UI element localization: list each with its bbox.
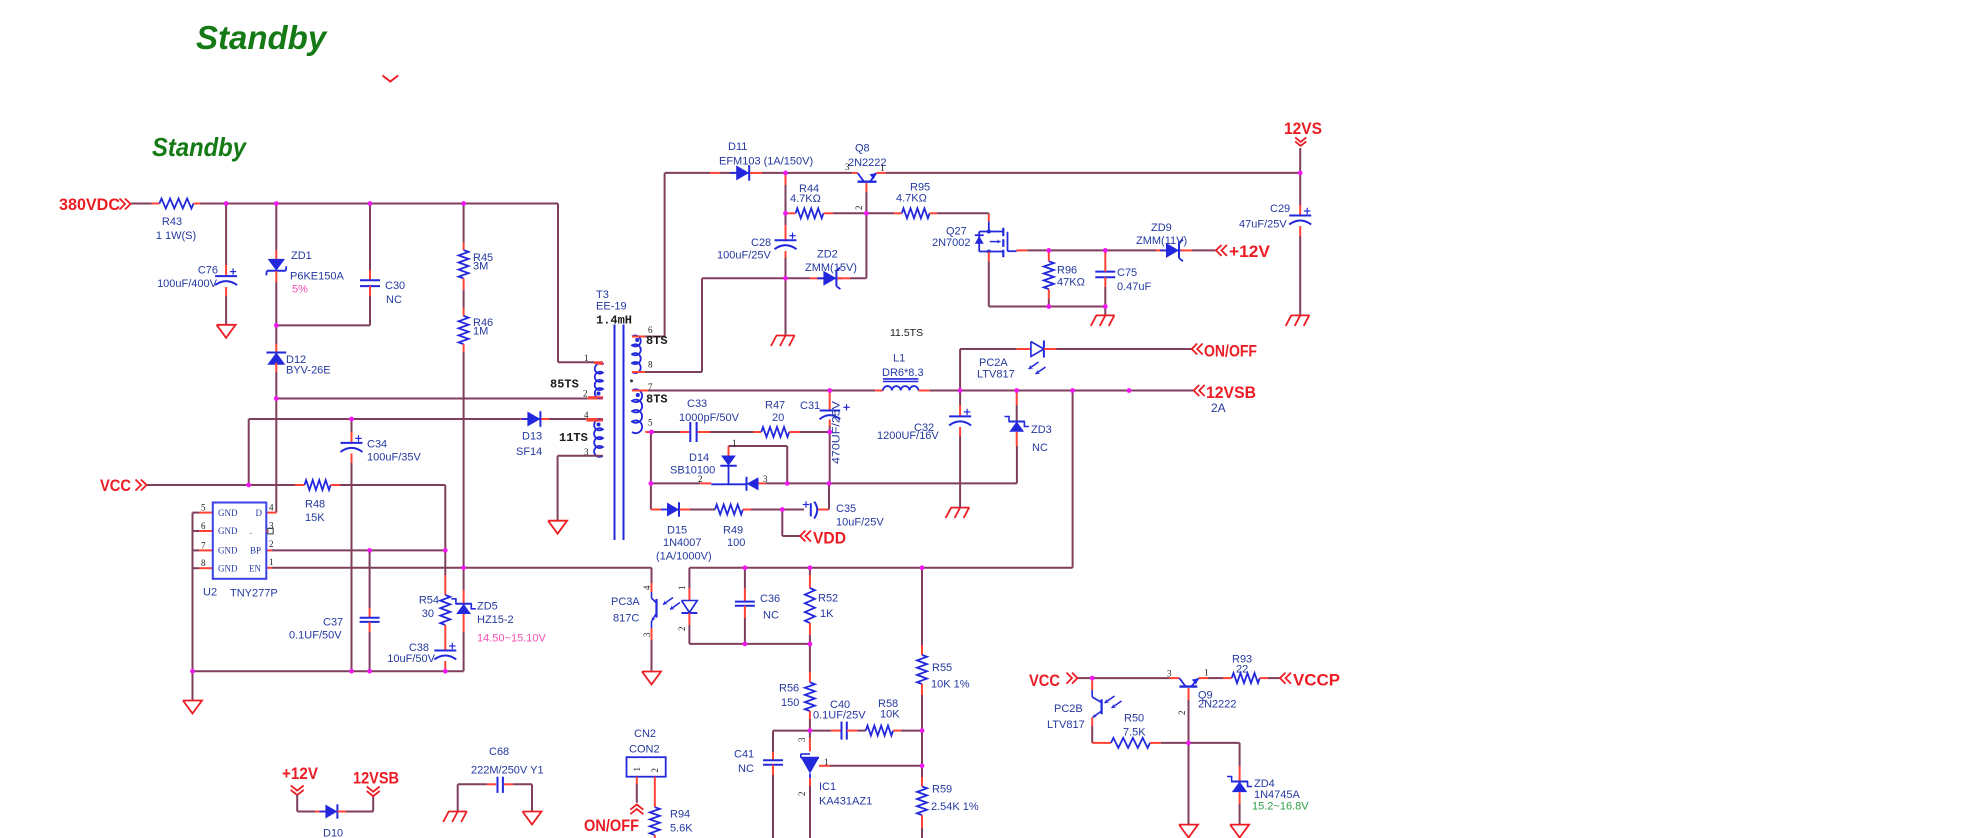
svg-text:1: 1 bbox=[269, 557, 274, 567]
svg-text:12VS: 12VS bbox=[1284, 119, 1322, 138]
svg-text:P6KE150A: P6KE150A bbox=[290, 271, 344, 283]
svg-text:7: 7 bbox=[201, 540, 206, 550]
svg-text:1: 1 bbox=[824, 757, 829, 767]
svg-text:PC3A: PC3A bbox=[611, 596, 640, 608]
svg-text:.: . bbox=[250, 526, 252, 536]
svg-text:12VSB: 12VSB bbox=[353, 769, 399, 788]
svg-text:BYV-26E: BYV-26E bbox=[286, 365, 331, 377]
svg-text:ZD2: ZD2 bbox=[817, 249, 838, 261]
svg-text:817C: 817C bbox=[613, 613, 639, 625]
svg-text:U2: U2 bbox=[203, 587, 217, 599]
svg-text:470UF/25V: 470UF/25V bbox=[831, 400, 843, 464]
svg-text:1200UF/16V: 1200UF/16V bbox=[877, 430, 939, 442]
svg-text:4: 4 bbox=[269, 503, 274, 513]
svg-text:3: 3 bbox=[797, 737, 807, 742]
svg-text:2: 2 bbox=[269, 539, 274, 549]
svg-text:1: 1 bbox=[1204, 668, 1209, 678]
svg-text:1: 1 bbox=[732, 438, 737, 448]
svg-text:10uF/25V: 10uF/25V bbox=[836, 517, 884, 529]
svg-text:2.54K 1%: 2.54K 1% bbox=[931, 801, 979, 813]
svg-text:100uF/400V: 100uF/400V bbox=[157, 278, 218, 290]
svg-text:LTV817: LTV817 bbox=[977, 369, 1015, 381]
svg-text:20: 20 bbox=[772, 412, 784, 424]
svg-text:C33: C33 bbox=[687, 398, 707, 410]
svg-text:47uF/25V: 47uF/25V bbox=[1239, 219, 1287, 231]
svg-text:C41: C41 bbox=[734, 749, 754, 761]
svg-text:4: 4 bbox=[642, 585, 652, 590]
svg-text:+12V: +12V bbox=[1229, 242, 1271, 261]
svg-text:2: 2 bbox=[583, 389, 588, 399]
svg-text:CN2: CN2 bbox=[634, 728, 656, 740]
svg-text:R49: R49 bbox=[723, 525, 743, 537]
svg-text:L1: L1 bbox=[893, 353, 905, 365]
svg-text:1K: 1K bbox=[820, 608, 834, 620]
svg-text:2A: 2A bbox=[1211, 401, 1226, 415]
svg-text:3M: 3M bbox=[473, 261, 488, 273]
svg-text:10uF/50V: 10uF/50V bbox=[387, 653, 435, 665]
svg-text:2: 2 bbox=[1177, 711, 1187, 716]
svg-text:6: 6 bbox=[648, 325, 653, 335]
svg-text:Q8: Q8 bbox=[855, 143, 870, 155]
svg-text:C36: C36 bbox=[760, 593, 780, 605]
svg-text:14.50~15.10V: 14.50~15.10V bbox=[477, 633, 546, 645]
svg-text:R47: R47 bbox=[765, 400, 785, 412]
svg-text:85TS: 85TS bbox=[550, 378, 579, 392]
svg-text:2: 2 bbox=[797, 792, 807, 797]
svg-text:380VDC: 380VDC bbox=[59, 195, 120, 214]
svg-text:3: 3 bbox=[1167, 669, 1172, 679]
svg-text:12VSB: 12VSB bbox=[1206, 383, 1256, 402]
svg-text:NC: NC bbox=[763, 610, 779, 622]
svg-text:BP: BP bbox=[250, 546, 261, 556]
svg-text:47KΩ: 47KΩ bbox=[1057, 277, 1085, 289]
svg-text:3: 3 bbox=[763, 474, 768, 484]
svg-text:C34: C34 bbox=[367, 439, 387, 451]
svg-text:15K: 15K bbox=[305, 512, 325, 524]
svg-text:1 1W(S): 1 1W(S) bbox=[156, 230, 196, 242]
svg-text:Q27: Q27 bbox=[946, 226, 967, 238]
svg-text:7: 7 bbox=[648, 382, 653, 392]
svg-text:(1A/1000V): (1A/1000V) bbox=[656, 551, 712, 563]
svg-text:6: 6 bbox=[201, 521, 206, 531]
svg-text:EN: EN bbox=[249, 563, 261, 573]
svg-text:R56: R56 bbox=[779, 683, 799, 695]
svg-text:7.5K: 7.5K bbox=[1123, 727, 1146, 739]
svg-text:D11: D11 bbox=[728, 141, 747, 153]
svg-text:8TS: 8TS bbox=[646, 393, 668, 407]
svg-text:R43: R43 bbox=[162, 216, 182, 228]
svg-text:3: 3 bbox=[584, 447, 589, 457]
svg-text:4.7KΩ: 4.7KΩ bbox=[790, 193, 821, 205]
svg-text:1: 1 bbox=[677, 586, 687, 591]
svg-text:11TS: 11TS bbox=[559, 431, 588, 445]
svg-text:VDD: VDD bbox=[813, 529, 846, 548]
svg-text:T3: T3 bbox=[596, 289, 609, 301]
svg-text:222M/250V Y1: 222M/250V Y1 bbox=[471, 765, 544, 777]
svg-text:PC2B: PC2B bbox=[1054, 703, 1083, 715]
svg-text:C35: C35 bbox=[836, 503, 856, 515]
svg-text:2: 2 bbox=[650, 768, 660, 773]
svg-text:2: 2 bbox=[677, 627, 687, 632]
svg-text:5: 5 bbox=[648, 418, 653, 428]
svg-text:IC1: IC1 bbox=[819, 781, 836, 793]
svg-text:NC: NC bbox=[386, 294, 402, 306]
svg-text:KA431AZ1: KA431AZ1 bbox=[819, 796, 872, 808]
svg-text:1.4mH: 1.4mH bbox=[596, 314, 632, 328]
svg-text:D14: D14 bbox=[689, 452, 709, 464]
svg-text:1: 1 bbox=[632, 767, 642, 772]
svg-text:R48: R48 bbox=[305, 499, 325, 511]
svg-text:5.6K: 5.6K bbox=[670, 823, 693, 835]
svg-text:ON/OFF: ON/OFF bbox=[584, 816, 639, 835]
svg-text:1N4745A: 1N4745A bbox=[1254, 789, 1301, 801]
svg-text:ZD1: ZD1 bbox=[291, 250, 312, 262]
svg-text:Standby: Standby bbox=[152, 132, 247, 162]
svg-text:ZD3: ZD3 bbox=[1031, 424, 1052, 436]
svg-text:0.47uF: 0.47uF bbox=[1117, 281, 1152, 293]
svg-text:VCC: VCC bbox=[100, 476, 131, 495]
svg-text:2N2222: 2N2222 bbox=[1198, 699, 1237, 711]
svg-text:R54: R54 bbox=[419, 595, 439, 607]
svg-text:4.7KΩ: 4.7KΩ bbox=[896, 193, 927, 205]
svg-text:D15: D15 bbox=[667, 525, 687, 537]
svg-text:ZD9: ZD9 bbox=[1151, 222, 1172, 234]
svg-text:R96: R96 bbox=[1057, 265, 1077, 277]
svg-text:ZMM(11V): ZMM(11V) bbox=[1136, 235, 1187, 247]
svg-text:GND: GND bbox=[218, 508, 238, 518]
svg-text:VCC: VCC bbox=[1029, 671, 1060, 690]
svg-text:LTV817: LTV817 bbox=[1047, 719, 1085, 731]
svg-text:Standby: Standby bbox=[196, 19, 328, 56]
svg-text:R59: R59 bbox=[932, 784, 952, 796]
svg-text:SF14: SF14 bbox=[516, 446, 542, 458]
svg-text:1: 1 bbox=[880, 163, 885, 173]
svg-text:0.1UF/25V: 0.1UF/25V bbox=[813, 710, 866, 722]
svg-text:SB10100: SB10100 bbox=[670, 465, 715, 477]
svg-text:1N4007: 1N4007 bbox=[663, 537, 702, 549]
svg-text:PC2A: PC2A bbox=[979, 357, 1008, 369]
svg-text:2N7002: 2N7002 bbox=[932, 237, 971, 249]
svg-text:C29: C29 bbox=[1270, 203, 1290, 215]
svg-text:150: 150 bbox=[781, 697, 799, 709]
svg-text:ZMM(15V): ZMM(15V) bbox=[805, 262, 857, 274]
svg-text:1M: 1M bbox=[473, 326, 488, 338]
svg-text:GND: GND bbox=[218, 526, 238, 536]
svg-text:22: 22 bbox=[1236, 664, 1248, 676]
svg-text:CON2: CON2 bbox=[629, 744, 660, 756]
svg-text:1000pF/50V: 1000pF/50V bbox=[679, 412, 740, 424]
svg-text:11.5TS: 11.5TS bbox=[890, 327, 923, 339]
svg-text:R50: R50 bbox=[1124, 713, 1144, 725]
svg-text:2: 2 bbox=[854, 206, 864, 211]
svg-text:100uF/25V: 100uF/25V bbox=[717, 250, 771, 262]
svg-text:C37: C37 bbox=[323, 617, 343, 629]
svg-text:C68: C68 bbox=[489, 746, 509, 758]
svg-text:R55: R55 bbox=[932, 662, 952, 674]
svg-text:8: 8 bbox=[201, 558, 206, 568]
svg-text:8: 8 bbox=[648, 360, 653, 370]
svg-text:GND: GND bbox=[218, 563, 238, 573]
svg-text:3: 3 bbox=[269, 521, 274, 531]
svg-text:10K 1%: 10K 1% bbox=[931, 679, 970, 691]
svg-text:8TS: 8TS bbox=[646, 334, 668, 348]
svg-text:TNY277P: TNY277P bbox=[230, 588, 278, 600]
svg-text:4: 4 bbox=[584, 410, 589, 420]
svg-text:EFM103 (1A/150V): EFM103 (1A/150V) bbox=[719, 156, 813, 168]
svg-text:10K: 10K bbox=[880, 709, 900, 721]
svg-text:5: 5 bbox=[201, 503, 206, 513]
svg-text:0.1UF/50V: 0.1UF/50V bbox=[289, 630, 342, 642]
svg-text:C75: C75 bbox=[1117, 267, 1137, 279]
svg-text:NC: NC bbox=[738, 763, 754, 775]
svg-text:1: 1 bbox=[584, 353, 589, 363]
svg-text:D10: D10 bbox=[323, 828, 343, 838]
svg-text:3: 3 bbox=[642, 632, 652, 637]
svg-text:DR6*8.3: DR6*8.3 bbox=[882, 367, 924, 379]
svg-text:5%: 5% bbox=[292, 284, 308, 296]
svg-text:3: 3 bbox=[845, 162, 850, 172]
svg-text:R94: R94 bbox=[670, 809, 690, 821]
svg-text:100uF/35V: 100uF/35V bbox=[367, 452, 421, 464]
svg-text:D13: D13 bbox=[522, 431, 542, 443]
svg-text:+12V: +12V bbox=[282, 764, 319, 783]
svg-text:NC: NC bbox=[1032, 442, 1048, 454]
svg-text:C30: C30 bbox=[385, 280, 405, 292]
svg-text:VCCP: VCCP bbox=[1293, 671, 1340, 690]
svg-text:15.2~16.8V: 15.2~16.8V bbox=[1252, 801, 1309, 813]
svg-text:GND: GND bbox=[218, 546, 238, 556]
svg-text:D: D bbox=[256, 508, 263, 518]
svg-text:ZD5: ZD5 bbox=[477, 601, 498, 613]
svg-text:C28: C28 bbox=[751, 237, 771, 249]
svg-text:EE-19: EE-19 bbox=[596, 301, 627, 313]
svg-text:HZ15-2: HZ15-2 bbox=[477, 614, 514, 626]
svg-text:C76: C76 bbox=[198, 265, 218, 277]
svg-text:R52: R52 bbox=[818, 593, 838, 605]
svg-text:30: 30 bbox=[422, 608, 434, 620]
svg-text:C31: C31 bbox=[800, 400, 820, 412]
svg-text:100: 100 bbox=[727, 537, 745, 549]
svg-text:ON/OFF: ON/OFF bbox=[1204, 342, 1257, 361]
svg-text:2: 2 bbox=[698, 474, 703, 484]
